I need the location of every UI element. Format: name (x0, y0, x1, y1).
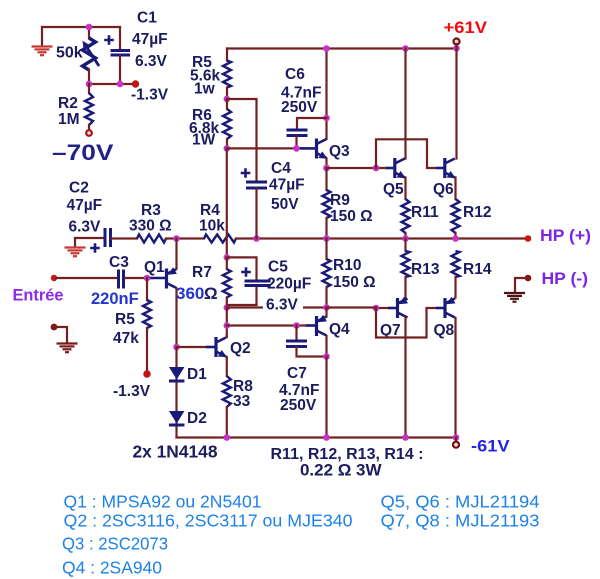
svg-text:HP (+): HP (+) (540, 226, 591, 245)
wire Q4 emitter stem (325, 308, 327, 317)
junction base line left (224, 145, 231, 152)
svg-text:6.3V: 6.3V (69, 219, 102, 236)
svg-text:Q3 : 2SC2073: Q3 : 2SC2073 (62, 534, 168, 554)
wire ground stem top-left (41, 27, 43, 45)
wire +61V top rail (227, 47, 457, 49)
wire Q2 base line (177, 346, 209, 348)
wire Q5 base lead (386, 167, 394, 170)
junction Q2 base node (173, 344, 180, 351)
svg-text:C5: C5 (268, 259, 288, 276)
wire Q5-Q6 base coupling (376, 139, 436, 168)
svg-text:C2: C2 (69, 180, 89, 197)
junction R7 top (224, 254, 231, 261)
wire R11 bottom stem (404, 233, 406, 239)
label C5 voltage (263, 297, 303, 311)
capacitor C3 (119, 270, 124, 289)
svg-text:360: 360 (176, 284, 204, 303)
ground G3 input (57, 344, 78, 353)
svg-text:150 Ω: 150 Ω (333, 274, 376, 291)
svg-text:Q1 : MPSA92 ou 2N5401: Q1 : MPSA92 ou 2N5401 (64, 492, 262, 512)
svg-text:D2: D2 (187, 410, 207, 427)
svg-text:R14: R14 (463, 261, 492, 278)
resistor R14 (452, 251, 460, 277)
junction bottom rail Q4 (323, 434, 330, 441)
svg-text:1w: 1w (194, 81, 216, 98)
terminal -1.3V top-left (132, 80, 139, 87)
resistor R10 (323, 259, 331, 287)
svg-text:Q6: Q6 (433, 181, 454, 198)
wire R8 bottom stem (226, 407, 228, 437)
wire Q8 collector down (454, 318, 456, 438)
ground G4 HP minus (504, 293, 525, 302)
svg-text:R2: R2 (58, 95, 78, 112)
capacitor C2 (105, 228, 111, 247)
capacitor C7 (286, 341, 307, 347)
junction C3 R5 node (144, 275, 151, 282)
wire C7 top stem (295, 326, 297, 341)
svg-text:R5: R5 (115, 311, 135, 328)
svg-text:Q2 : 2SC3116, 2SC3117 ou MJE34: Q2 : 2SC3116, 2SC3117 ou MJE340 (64, 511, 353, 531)
wire Q3 base line (227, 147, 303, 149)
terminal HP plus (525, 235, 532, 242)
terminal input ground (51, 324, 58, 331)
wire R2 bottom stem (88, 125, 90, 130)
svg-text:HP (-): HP (-) (542, 269, 589, 288)
svg-text:R10: R10 (333, 257, 361, 274)
junction Q4 emitter node (323, 304, 330, 311)
svg-text:10k: 10k (199, 218, 225, 235)
junction R7 bottom (224, 304, 231, 311)
wire -1.3V node top-left (89, 83, 133, 85)
svg-text:250V: 250V (281, 99, 318, 116)
svg-text:Ω: Ω (204, 284, 218, 303)
svg-text:47µF: 47µF (269, 177, 305, 194)
junction C1 bottom (117, 81, 124, 88)
junction Q7 base node (373, 305, 380, 312)
wire R13 top stem (404, 239, 406, 252)
transistor Q1 (167, 267, 177, 288)
wire Q4 base lead (306, 324, 316, 327)
junction R5 R6 (224, 96, 231, 103)
terminal -61V (453, 442, 459, 448)
svg-text:33: 33 (233, 393, 251, 410)
resistor R13 (402, 251, 410, 277)
resistor R4 (204, 235, 236, 243)
wire Q6 base lead (436, 167, 444, 170)
svg-text:47k: 47k (113, 330, 139, 347)
wire Q5 emitter to R11 (404, 178, 406, 200)
svg-text:Q8: Q8 (434, 322, 455, 339)
svg-text:Q3: Q3 (329, 143, 350, 160)
resistor R11 (402, 199, 410, 233)
wire R7 feed vertical (226, 148, 228, 257)
capacitor C1 (111, 51, 131, 56)
wire C3 to Q1 base (125, 277, 150, 279)
wire top-left rail (42, 26, 120, 28)
junction bottom rail Q7 (402, 434, 409, 441)
wire C2 left (75, 237, 103, 239)
wire R5k bottom stem (146, 328, 148, 371)
wire Q2 collector up (226, 336, 228, 338)
C4 plus sign (241, 168, 251, 178)
wire pot top stem (88, 27, 90, 38)
transistor Q5 (395, 158, 406, 178)
junction C7 top (293, 322, 300, 329)
wire R4 to C4 node (236, 237, 257, 239)
wire C1 bottom stem (119, 56, 121, 84)
svg-text:50k: 50k (56, 45, 83, 62)
junction C6 bottom (293, 145, 300, 152)
svg-text:C4: C4 (271, 160, 291, 177)
terminal HP minus (525, 275, 532, 282)
svg-text:C7: C7 (287, 365, 307, 382)
wire Q7-Q8 base coupling (376, 308, 436, 338)
junction pot top (86, 24, 93, 31)
wire R7 top stem (226, 257, 228, 269)
wire Q2 base lead (206, 346, 216, 349)
junction main line Q34 (323, 235, 330, 242)
svg-text:Q5: Q5 (383, 181, 404, 198)
svg-text:6.3V: 6.3V (135, 53, 168, 70)
ground G2 at C2 (65, 248, 86, 257)
wire -61V bottom rail (177, 436, 457, 438)
junction Q1 emitter node (173, 235, 180, 242)
wire R5k top stem (146, 278, 148, 300)
svg-text:R13: R13 (411, 261, 440, 278)
resistor R12 (452, 199, 460, 233)
wire input to C3 (56, 277, 117, 279)
svg-text:220µF: 220µF (267, 276, 311, 293)
wire Q8 base lead (436, 307, 445, 310)
svg-text:47µF: 47µF (67, 197, 103, 214)
svg-text:Entrée: Entrée (13, 286, 64, 305)
wire pot bottom stem (88, 70, 90, 84)
svg-text:R3: R3 (141, 202, 161, 219)
svg-text:1W: 1W (192, 132, 216, 149)
junction Q3 emitter (323, 165, 330, 172)
svg-text:1M: 1M (58, 111, 80, 128)
svg-text:R11, R12, R13, R14 :: R11, R12, R13, R14 : (271, 446, 424, 463)
terminal Entrée input (51, 275, 57, 281)
wire VAS to Q7 base (327, 306, 376, 308)
svg-text:Q7, Q8 : MJL21193: Q7, Q8 : MJL21193 (381, 511, 540, 531)
junction C4 node (253, 235, 260, 242)
resistor R8 (223, 376, 231, 407)
terminal -70V (86, 130, 92, 136)
svg-text:Q1: Q1 (144, 259, 165, 276)
wire R3 to R4 (166, 237, 204, 239)
wire Q6 collector vertical (455, 44, 457, 159)
wire Q5 collector up (404, 49, 406, 159)
wire Q3 emitter stem (325, 159, 327, 169)
wire Q7 collector down (404, 318, 406, 437)
svg-text:R7: R7 (192, 264, 212, 281)
transistor Q7 (398, 297, 408, 318)
wire R9 top stem (325, 168, 327, 190)
diode D1 (169, 367, 185, 381)
svg-text:–70V: –70V (52, 140, 114, 165)
wire Q2 emitter stem (226, 357, 228, 376)
junction top rail Q3 (323, 45, 330, 52)
potentiometer 50k (83, 38, 96, 70)
wire main line C2 to R3 (112, 237, 138, 239)
wire R10 bottom stem (325, 287, 327, 308)
wire Q7 base lead (388, 307, 397, 310)
wire R9 bottom stem (325, 218, 327, 239)
junction top rail end (453, 45, 460, 52)
wire C4 bottom stem (255, 189, 257, 239)
svg-text:R9: R9 (330, 192, 350, 209)
svg-text:2x 1N4148: 2x 1N4148 (133, 442, 218, 462)
junction Q5 base node (373, 165, 380, 172)
wire R6 top stem (226, 99, 228, 109)
svg-text:C1: C1 (137, 10, 157, 27)
wire R14 to Q8 (454, 277, 456, 298)
svg-text:220nF: 220nF (91, 290, 139, 308)
svg-text:-1.3V: -1.3V (131, 87, 169, 104)
resistor R2 (85, 93, 93, 125)
C1 plus sign (104, 35, 114, 45)
transistor Q6 (445, 158, 456, 178)
junction Q4 base branch (224, 322, 231, 329)
svg-text:C6: C6 (285, 66, 305, 83)
wire -61V terminal stem (455, 438, 457, 443)
wire VAS node horizontal (227, 306, 327, 308)
diode D2 (169, 411, 185, 425)
wire C7 bottom stem (297, 347, 327, 357)
resistor R7 (223, 269, 231, 298)
svg-text:R12: R12 (463, 204, 491, 221)
wire Q3 base lead (300, 147, 316, 150)
svg-text:250V: 250V (280, 397, 317, 414)
ground G1 top-left (32, 47, 53, 56)
wire Q2 collector vertical (226, 308, 228, 336)
svg-text:47µF: 47µF (132, 31, 168, 48)
junction pot bottom (86, 81, 93, 88)
junction output R12 (452, 235, 459, 242)
C2 plus sign (90, 243, 100, 253)
svg-text:Q4: Q4 (329, 321, 350, 338)
svg-text:D1: D1 (187, 366, 207, 383)
wire Q1 base lead (148, 277, 166, 280)
wire R6 bottom to base line (226, 139, 228, 148)
svg-text:-61V: -61V (471, 438, 510, 456)
wire main line mid (257, 237, 527, 239)
junction top rail Q5 (402, 45, 409, 52)
potentiometer wiper arrow (83, 41, 100, 66)
svg-text:150 Ω: 150 Ω (330, 208, 373, 225)
junction bottom rail R8 (224, 434, 231, 441)
svg-text:Q2: Q2 (230, 340, 251, 357)
resistor R9 (323, 190, 331, 218)
wire HP minus ground (515, 278, 526, 292)
wire R10 top stem (325, 239, 327, 260)
wire Q7 base line (376, 307, 389, 309)
svg-text:-1.3V: -1.3V (113, 383, 151, 400)
svg-text:0.22 Ω 3W: 0.22 Ω 3W (300, 462, 382, 480)
svg-text:330 Ω: 330 Ω (129, 218, 172, 235)
resistor R6 (223, 109, 231, 139)
wire Q4 collector to rail (325, 357, 327, 438)
junction C6 top (323, 115, 330, 122)
svg-text:50V: 50V (271, 196, 299, 213)
transistor Q2 (216, 337, 227, 357)
wire Q4 collector stem (325, 336, 327, 357)
resistor R5 47k (143, 300, 151, 328)
capacitor C6 (287, 130, 308, 136)
wire D1 D2 string (175, 347, 177, 437)
wire C1 top stem (119, 27, 121, 49)
svg-text:Q5, Q6 : MJL21194: Q5, Q6 : MJL21194 (381, 492, 540, 512)
resistor R5 main (223, 61, 231, 88)
wire Q3 collector vertical (325, 49, 327, 140)
wire R5-R6 junction stem (226, 88, 228, 100)
wire C5 bottom return (228, 287, 257, 306)
junction bottom rail end (453, 434, 460, 441)
capacitor C5 (245, 281, 271, 286)
resistor R3 (137, 235, 166, 243)
wire Q1 emitter up (175, 239, 177, 269)
transistor Q3 (317, 139, 328, 159)
wire C2 ground stem (74, 238, 76, 246)
wire Q4 base line (227, 324, 308, 326)
wire input ground (54, 327, 67, 342)
wire R12 bottom stem (454, 233, 456, 239)
wire Q1 collector down (175, 289, 177, 348)
terminal +61V (454, 39, 460, 45)
wire R5R6 to C4 branch (227, 99, 257, 181)
svg-text:6.3V: 6.3V (266, 297, 299, 314)
C5 plus sign (241, 267, 251, 277)
transistor Q4 (317, 315, 327, 336)
wire Q6 emitter to R12 (454, 178, 456, 200)
transistor Q8 (445, 297, 455, 318)
wire R2 top stem (88, 84, 90, 93)
junction output R11 (402, 235, 409, 242)
svg-text:R11: R11 (411, 204, 439, 221)
wire C6 top branch (297, 118, 327, 129)
wire top rail left corner (226, 49, 228, 61)
svg-text:+61V: +61V (444, 19, 488, 37)
svg-text:Q4 : 2SA940: Q4 : 2SA940 (62, 558, 162, 578)
svg-text:R4: R4 (200, 202, 220, 219)
terminal -1.3V input bias (143, 370, 150, 377)
svg-text:C3: C3 (109, 254, 129, 271)
wire Q3 emitter to Q5 base (327, 167, 387, 169)
wire R7top to C5 (227, 257, 257, 280)
wire C6 bottom stem (295, 136, 297, 148)
junction Q4 collector node (323, 353, 330, 360)
capacitor C4 (246, 182, 267, 188)
wire R7 bottom stem (226, 298, 228, 308)
wire R13 to Q7 (404, 277, 406, 298)
